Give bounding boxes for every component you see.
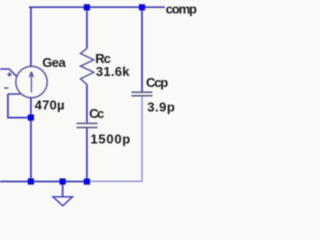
svg-text:470µ: 470µ	[35, 97, 65, 112]
svg-text:comp: comp	[166, 1, 197, 16]
svg-text:3.9p: 3.9p	[147, 100, 175, 115]
svg-text:Ccp: Ccp	[146, 75, 168, 90]
svg-text:31.6k: 31.6k	[96, 64, 130, 79]
svg-text:Cc: Cc	[89, 106, 104, 121]
svg-text:Gea: Gea	[42, 55, 66, 70]
svg-text:1500p: 1500p	[90, 132, 131, 147]
